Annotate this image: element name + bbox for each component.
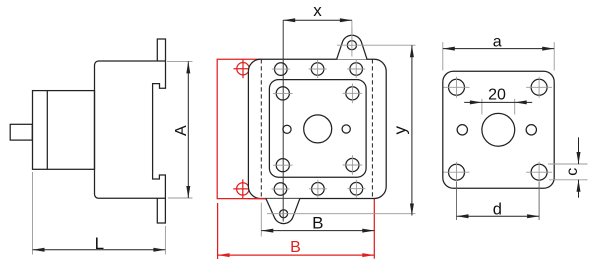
top ear hole (347, 41, 356, 50)
dim x right extension line (351, 20, 353, 40)
rear housing step line (46, 91, 48, 170)
dim L line (33, 249, 166, 251)
small side circles (283, 125, 291, 133)
inner insert holes (276, 87, 359, 172)
dim c arrows (577, 152, 581, 192)
main body with flange profile (95, 39, 166, 223)
outer mounting holes (top and bottom rows) (274, 63, 363, 196)
dim y line (411, 45, 413, 215)
rear housing (33, 91, 95, 170)
red B dim line (218, 254, 375, 256)
dim d arrows (457, 214, 540, 218)
svg-text:20: 20 (488, 86, 506, 103)
bottom mounting ear (266, 199, 300, 224)
center circle (304, 115, 332, 143)
dim B black line (261, 230, 374, 232)
svg-text:x: x (313, 1, 322, 20)
dim A arrows (186, 61, 190, 198)
dim c line segments (578, 137, 580, 164)
dim x line (283, 19, 352, 21)
red B arrows (218, 253, 375, 257)
svg-text:B: B (312, 214, 323, 233)
red overdraw of bottom edge (red visible over black) (248, 198, 265, 200)
svg-text:L: L (95, 234, 104, 253)
dim B black left extension (260, 203, 262, 237)
dim a extension lines (443, 42, 554, 70)
dashed cutout lines (261, 59, 372, 198)
dim c extension lines (548, 164, 588, 180)
dim 20 line (464, 101, 532, 103)
dim d ext lines (456, 182, 458, 220)
dim L extension lines (33, 172, 166, 255)
red hole top-left (237, 62, 249, 74)
dim 20 tangent extension lines (482, 99, 515, 115)
svg-text:B: B (290, 239, 301, 256)
red panel outline (217, 59, 374, 259)
crosshairs inner holes (273, 84, 362, 175)
bottom ear hole (280, 210, 288, 218)
dim y arrows (410, 45, 414, 215)
corner holes (449, 79, 465, 95)
long centerline through left hole column (282, 20, 284, 221)
flange plate (443, 71, 554, 188)
ear crosshairs (267, 29, 416, 214)
top mounting ear (337, 35, 368, 59)
center circle (482, 113, 515, 146)
flange plate (248, 59, 386, 198)
dim A extension lines (167, 61, 193, 198)
svg-text:d: d (493, 201, 502, 219)
red hole bottom-left (237, 183, 249, 195)
dim d line (457, 215, 540, 217)
crosshairs outer holes (272, 60, 366, 198)
dim 20 arrows (outside, pointing in) (470, 100, 527, 104)
small circles (457, 125, 467, 135)
svg-text:a: a (493, 34, 502, 51)
svg-text:c: c (564, 168, 581, 176)
shaft stub (10, 124, 32, 140)
dim A line (187, 61, 189, 198)
inner square (269, 80, 366, 178)
dim L arrows (33, 248, 166, 252)
dim B black arrows (261, 229, 374, 233)
dim x arrows (283, 18, 352, 22)
dim a line (443, 48, 554, 50)
dim a arrows (443, 47, 554, 51)
red B left extension (217, 203, 219, 259)
svg-text:A: A (173, 125, 190, 136)
crosshairs corner holes (444, 77, 553, 182)
red right edge line below flange (373, 199, 375, 259)
svg-text:y: y (391, 125, 410, 134)
